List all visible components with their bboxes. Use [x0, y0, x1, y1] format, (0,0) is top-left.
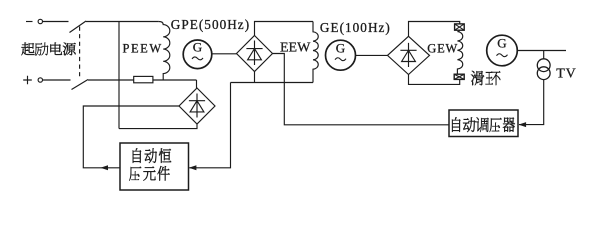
wire U1 bottom stub — [254, 72, 256, 83]
switch QS gang link — [79, 27, 81, 78]
inductor PEEW coil — [159, 22, 170, 81]
svg-text:GPE(500Hz): GPE(500Hz) — [171, 17, 250, 32]
wire to constant-voltage unit input — [189, 83, 230, 168]
label 滑环 — [471, 71, 500, 85]
resistor R1 — [134, 76, 153, 82]
wire — [43, 21, 69, 23]
arrowhead into U5 — [189, 165, 197, 170]
svg-text:GE(100Hz): GE(100Hz) — [320, 20, 391, 35]
inductor GEW coil — [457, 30, 462, 74]
wire U3 to constant-voltage unit — [83, 106, 179, 168]
wire — [153, 79, 197, 81]
wire U2 top route to slip ring — [409, 22, 460, 37]
rectifier U1 — [237, 36, 273, 72]
wire U2 bottom route to slip ring — [409, 75, 460, 85]
wire generator output bus — [517, 50, 566, 52]
block U5 automatic constant voltage unit — [120, 143, 189, 190]
arrowhead into AVR — [519, 122, 527, 127]
label 起励电源 — [21, 43, 75, 56]
svg-text:G: G — [193, 40, 202, 55]
wire TV to AVR — [519, 80, 544, 125]
wire top rail — [86, 21, 159, 23]
terminal plus sign — [23, 76, 32, 85]
terminal minus sign — [26, 21, 33, 23]
wire stub to rectifier U3 — [196, 80, 198, 88]
svg-text:TV: TV — [556, 67, 576, 82]
wire GE to rectifier U2 — [356, 54, 388, 56]
svg-text:G: G — [497, 36, 506, 51]
wire TV tap — [543, 51, 545, 59]
terminal plus — [38, 78, 42, 82]
slip ring brush bottom — [454, 74, 464, 79]
transformer TV — [537, 59, 550, 80]
wire U3 bottom return — [119, 124, 197, 129]
wire U1 AC node to AVR — [273, 54, 450, 125]
terminal minus — [38, 19, 42, 23]
wire GPE to rectifier U1 — [212, 53, 237, 55]
svg-text:G: G — [336, 40, 345, 55]
generator GPE (500Hz pilot exciter) — [183, 40, 212, 69]
wire bottom rail — [88, 79, 134, 81]
slip ring brush top — [455, 24, 465, 30]
generator G main — [487, 35, 518, 66]
rectifier U2 — [388, 36, 430, 74]
wire bottom route — [231, 82, 314, 84]
generator GE (100Hz AC exciter) — [326, 40, 356, 70]
block U4 automatic voltage regulator — [449, 110, 518, 137]
wire junction riser x119 — [118, 22, 120, 129]
switch QS upper blade — [70, 21, 87, 33]
rectifier U3 — [179, 88, 215, 124]
inductor EEW coil — [313, 22, 318, 83]
svg-text:GEW: GEW — [427, 41, 458, 55]
svg-text:PEEW: PEEW — [123, 42, 163, 56]
wire U1 top route — [255, 22, 314, 36]
switch QS lower blade — [72, 80, 89, 90]
arrowhead U5 output — [100, 165, 108, 170]
wire — [43, 79, 71, 81]
